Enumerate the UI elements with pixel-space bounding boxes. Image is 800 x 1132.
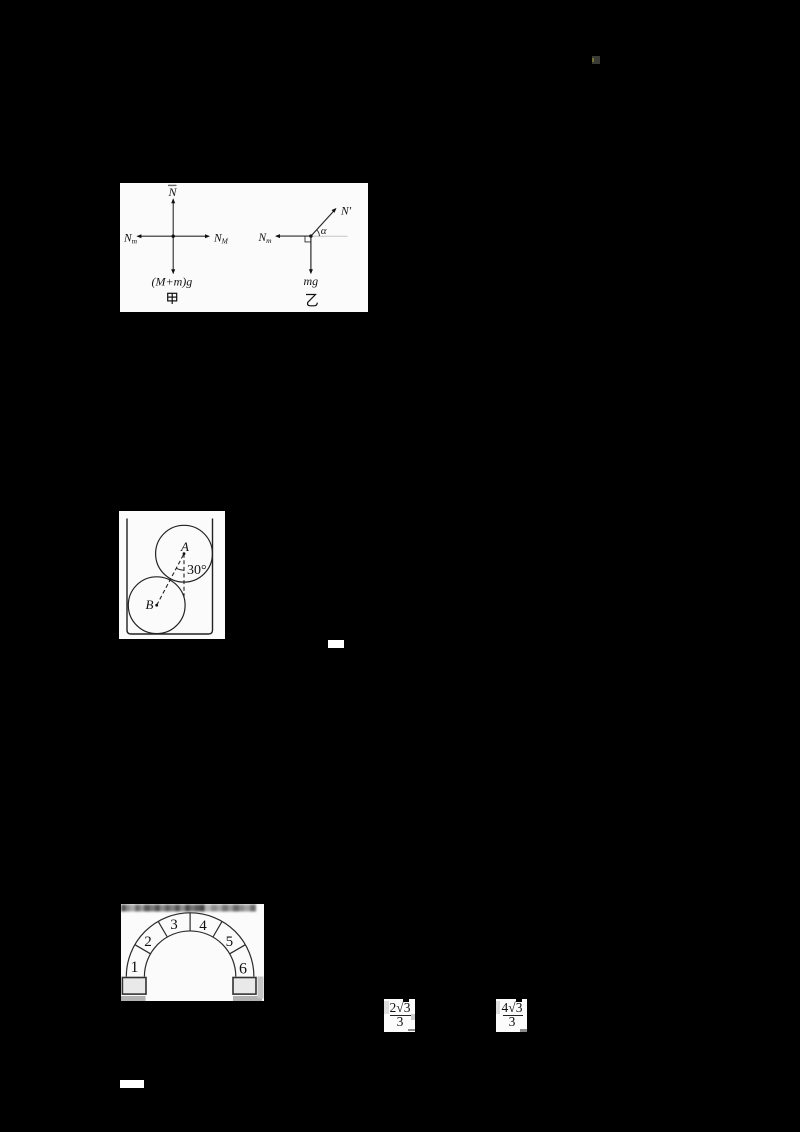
joint 3/4 (189, 912, 191, 930)
svg-text:B: B (146, 597, 154, 612)
wire: faint horizontal reference line (乙) (311, 235, 348, 237)
angle arc 30deg (176, 568, 184, 570)
right-angle mark (305, 236, 311, 242)
svg-text:1: 1 (131, 959, 139, 976)
right support block (233, 977, 256, 994)
svg-text:4: 4 (199, 918, 207, 934)
node: dot A (183, 552, 186, 555)
force mg arrow down (乙) (310, 236, 312, 272)
circle A (156, 525, 213, 582)
small white rect bottom left (120, 1080, 144, 1088)
gray strip under left block (121, 996, 146, 1001)
force Nm arrow left (乙) (276, 235, 311, 237)
svg-text:2: 2 (144, 934, 152, 950)
small gray square top right (592, 56, 600, 64)
angle arc alpha (317, 230, 320, 236)
figure: two balls A,B in a container (119, 511, 225, 639)
joint 5/6 (230, 944, 246, 953)
joint 1/2 (135, 944, 151, 953)
dashed vertical from A (183, 554, 185, 597)
svg-text:30°: 30° (187, 563, 207, 578)
svg-text:A: A (180, 539, 189, 554)
node: center dot (乙) (309, 234, 312, 237)
gray strip under right block (233, 996, 262, 1001)
svg-text:N′: N′ (340, 206, 352, 218)
overline artifact above N (168, 184, 177, 186)
label 甲 (drawn glyph) (168, 293, 177, 304)
wire: horizontal axis line (甲) (138, 235, 209, 237)
joint 4/5 (213, 921, 222, 937)
inner arc (144, 930, 235, 976)
svg-text:NM: NM (213, 233, 229, 246)
smudged caption strip (121, 904, 256, 911)
circle B (128, 577, 185, 634)
fraction 4root3/3 (496, 999, 527, 1032)
node: center dot (甲) (172, 235, 175, 238)
left support block (122, 977, 146, 994)
arrowhead Nm left (136, 234, 141, 238)
node: dot B (155, 604, 158, 607)
svg-text:Nm: Nm (258, 232, 273, 245)
wire: vertical axis line (甲) (172, 200, 174, 273)
outer arc (126, 912, 254, 976)
figure: force diagrams 甲/乙 (120, 183, 368, 312)
fraction 2root3/3 (384, 999, 415, 1032)
svg-text:Nm: Nm (123, 233, 138, 246)
svg-text:N: N (168, 185, 178, 199)
small white rect mid page (328, 640, 344, 648)
arrowhead NM right (205, 234, 210, 238)
label 乙 (drawn glyph) (306, 295, 317, 306)
svg-text:α: α (321, 225, 327, 237)
force N' arrow (乙) (311, 210, 335, 236)
svg-text:(M+m)g: (M+m)g (152, 275, 193, 289)
figure: stone arch with 6 voussoirs (121, 904, 264, 1001)
dashed line B to A (157, 554, 184, 606)
svg-text:mg: mg (304, 274, 319, 288)
container vessel (127, 519, 213, 635)
arrowhead (M+m)g down (171, 269, 175, 274)
joint 2/3 (158, 921, 167, 937)
svg-text:5: 5 (226, 934, 234, 950)
gray strip right edge (258, 976, 264, 998)
arrowhead N up (171, 198, 175, 203)
svg-text:6: 6 (239, 960, 247, 977)
svg-text:3: 3 (170, 917, 178, 933)
